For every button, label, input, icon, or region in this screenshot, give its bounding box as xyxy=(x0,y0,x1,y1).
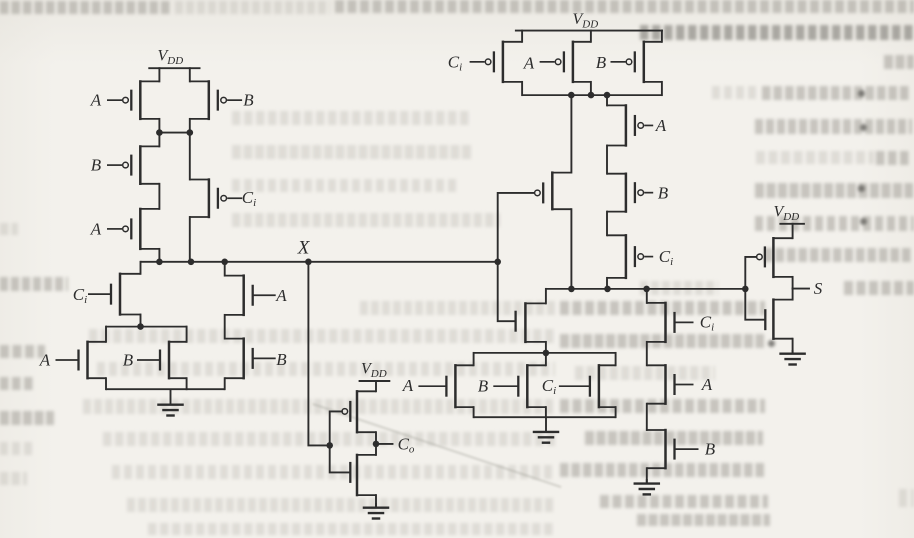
wire Q26 source to ground xyxy=(646,468,648,483)
ground (Co inverter) xyxy=(363,503,390,519)
wire sum-bar to Q27 gate xyxy=(745,257,756,289)
node X rail xyxy=(141,261,498,263)
wire node down to Q8 drain xyxy=(186,327,188,342)
junction Q6 source / parallel pair xyxy=(137,323,144,330)
junction parallel trio / Q20 xyxy=(543,350,550,357)
pmos Q15 gate B (top parallel trio) xyxy=(611,41,662,84)
svg-text:Ci: Ci xyxy=(448,53,462,74)
wire Q25 to Q26 xyxy=(646,404,648,430)
nmos Q20 (gate X) xyxy=(516,302,546,343)
svg-text:B: B xyxy=(596,53,607,72)
pmos Q16 gate A (series chain) xyxy=(607,104,653,147)
power rail VDD (S inverter) xyxy=(779,223,805,225)
sum-bar node rail xyxy=(546,288,745,290)
parallel trio top wire xyxy=(474,352,616,354)
svg-text:Ci: Ci xyxy=(242,188,256,209)
svg-text:A: A xyxy=(90,91,102,110)
wire Q7 source to gnd rail xyxy=(105,378,107,389)
svg-text:A: A xyxy=(701,375,713,394)
nmos Q28 (S inverter) xyxy=(765,298,792,340)
wire down to Q3 xyxy=(158,133,160,147)
wire Q18 drain to sum-bar rail xyxy=(606,278,608,289)
wire Q21 drain up xyxy=(473,353,475,365)
nmos Q26 gate B (nmos series chain) xyxy=(647,429,699,470)
junction pair-drain right xyxy=(187,129,194,136)
svg-text:A: A xyxy=(523,54,535,73)
junction trio rail / series chain xyxy=(604,92,611,99)
wire Q14 source to VDD xyxy=(590,31,592,42)
wire Q20 source down to parallel node xyxy=(545,342,547,353)
ground (left block) xyxy=(157,389,184,415)
pmos Q1 gate A (top-left parallel pair) xyxy=(107,80,159,120)
svg-text:S: S xyxy=(814,279,823,298)
svg-text:Co: Co xyxy=(398,435,415,456)
junction Co output xyxy=(373,441,380,448)
wire Q16 to Q17 xyxy=(606,146,608,174)
wire Q23 source down xyxy=(615,407,617,417)
wire Q11 drain to Co node xyxy=(375,432,377,444)
wire Q11 source to VDD xyxy=(375,381,377,391)
svg-text:Ci: Ci xyxy=(659,247,673,268)
svg-text:A: A xyxy=(90,220,102,239)
junction X rail / Q5 drain xyxy=(188,259,195,266)
power rail VDD (Co inverter) xyxy=(359,380,391,382)
wire Q22 drain up xyxy=(545,353,547,365)
nmos Q7 gate A (parallel) xyxy=(56,341,107,380)
nmos Q6 gate Ci (pull-down top) xyxy=(88,273,141,316)
power rail VDD (left block) xyxy=(148,67,200,69)
svg-text:B: B xyxy=(243,91,254,110)
pmos Q13 gate Ci (top parallel trio) xyxy=(470,41,522,84)
wire Q8 source to gnd rail xyxy=(186,378,188,389)
junction sum-bar / Q18 drain xyxy=(604,286,611,293)
nmos Q23 gate Ci (bottom parallel trio) xyxy=(559,364,616,408)
pmos Q18 gate Ci (series chain) xyxy=(607,234,653,279)
wire Q10 source to gnd rail xyxy=(224,378,226,389)
wire sum-bar down to Q24 xyxy=(646,289,648,303)
nmos Q10 gate B (series) xyxy=(225,337,276,379)
junction trio rail / long wire xyxy=(568,92,575,99)
pmos Q19 (gate X) xyxy=(543,171,571,210)
junction X rail / N-branch xyxy=(221,259,228,266)
svg-text:VDD: VDD xyxy=(361,360,387,380)
pmos Q27 (S inverter) xyxy=(765,237,793,278)
wire Q1 source to VDD rail xyxy=(158,68,160,81)
wire Q3 to Q4 xyxy=(158,184,160,209)
junction sum-bar / nmos chain xyxy=(643,286,650,293)
pmos Q14 gate A (top parallel trio) xyxy=(540,41,591,84)
nmos Q24 gate Ci (nmos series chain) xyxy=(647,302,694,343)
wire Q19 drain to sum-bar rail xyxy=(570,209,572,289)
wire S output lead xyxy=(793,288,809,290)
ground (S inverter) xyxy=(779,350,806,365)
wire S node to Q28 drain xyxy=(792,289,794,300)
pmos Q27 gate bubble (S inverter) xyxy=(757,254,763,260)
wire X to inverter input xyxy=(308,262,329,446)
pmos Q11 (Co inverter) gate bubble xyxy=(342,409,348,415)
junction X rail / Q4 drain xyxy=(156,259,163,266)
wire Q13 drain to trio rail xyxy=(521,82,523,95)
wire X down to Q20 gate xyxy=(498,262,515,321)
junction sum-bar / S inverter input xyxy=(742,286,749,293)
svg-text:B: B xyxy=(91,156,102,175)
wire Q24 to Q25 xyxy=(646,342,648,365)
svg-text:X: X xyxy=(297,238,311,259)
pmos Q19 gate bubble (gate = X) xyxy=(535,190,541,196)
svg-text:VDD: VDD xyxy=(774,204,800,224)
wire Q5 drain to X rail xyxy=(189,217,191,262)
svg-text:B: B xyxy=(658,183,669,202)
pmos Q11 (Co inverter) xyxy=(350,390,376,433)
svg-text:A: A xyxy=(655,116,667,135)
wire Q9 to Q10 xyxy=(224,315,226,339)
junction inverter input xyxy=(326,442,333,449)
junction trio rail / Q14 drain xyxy=(588,92,595,99)
wire Q22 source down xyxy=(545,407,547,417)
wire input to Q11 gate xyxy=(330,411,342,445)
wire Q14 drain to trio rail xyxy=(590,82,592,95)
wire Q4 drain to X rail xyxy=(158,249,160,262)
svg-text:B: B xyxy=(123,350,134,369)
wire Co output lead xyxy=(376,443,393,445)
junction X rail / inverter feed xyxy=(305,259,312,266)
parallel trio bottom wire xyxy=(474,416,616,418)
wire X rail down to Q9 xyxy=(224,262,226,276)
trio drain rail xyxy=(522,94,662,96)
wire Q27 source to VDD xyxy=(792,224,794,238)
wire Q12 drain to Co node xyxy=(375,444,377,455)
ground rail (left block) xyxy=(106,388,225,390)
wire Q15 source to VDD xyxy=(661,31,663,42)
wire Q2 drain down to node xyxy=(189,119,191,133)
svg-text:A: A xyxy=(275,286,287,305)
svg-text:Ci: Ci xyxy=(700,313,714,334)
wire trio rail down to Q16 xyxy=(606,95,608,105)
svg-text:B: B xyxy=(705,440,716,459)
wire sum-bar to Q28 gate xyxy=(745,289,764,320)
pmos Q5 gate Ci (parallel branch) xyxy=(190,178,242,218)
wire Q6 source to parallel node xyxy=(140,315,142,327)
wire X up to Q19 gate xyxy=(498,193,534,262)
svg-text:VDD: VDD xyxy=(573,11,599,31)
pmos Q4 gate A (series) xyxy=(107,208,159,250)
wire Q12 source to ground xyxy=(375,495,377,507)
nmos Q21 gate A (bottom parallel trio) xyxy=(418,364,473,408)
wire Q2 source to VDD rail xyxy=(189,68,191,81)
power rail VDD (sum block) xyxy=(515,30,663,32)
pmos Q2 gate B (top-left parallel pair) xyxy=(190,80,242,120)
wire input to Q12 gate xyxy=(330,445,350,472)
wire Q23 drain up xyxy=(615,353,617,365)
pmos Q3 gate B (series) xyxy=(107,145,159,185)
svg-text:Ci: Ci xyxy=(73,285,87,306)
svg-text:VDD: VDD xyxy=(158,48,184,68)
wire Q1 drain down to node xyxy=(158,119,160,133)
wire joining parallel pair drains xyxy=(159,132,189,134)
svg-text:A: A xyxy=(39,350,51,369)
nmos Q8 gate B (parallel) xyxy=(137,341,187,380)
junction X rail right end xyxy=(494,259,501,266)
svg-text:B: B xyxy=(276,350,287,369)
wire Q21 source down xyxy=(473,407,475,417)
wire long: trio rail to Q19 source xyxy=(570,95,572,173)
nmos Q12 (Co inverter) xyxy=(350,454,376,497)
ground (bottom parallel trio) xyxy=(533,417,560,443)
nmos Q22 gate B (bottom parallel trio) xyxy=(493,364,546,408)
nmos Q25 gate A (nmos series chain) xyxy=(647,364,694,405)
wire Q28 source to ground xyxy=(792,339,794,353)
wire Q13 source to VDD xyxy=(521,31,523,42)
svg-text:Ci: Ci xyxy=(542,376,556,397)
wire down to Q5 xyxy=(189,133,191,180)
internal node wire (parallel A|B top) xyxy=(106,326,187,328)
wire X rail left end down to Q6 xyxy=(140,262,142,274)
wire Q27 drain to S node xyxy=(792,277,794,289)
wire Q15 drain to trio rail xyxy=(661,82,663,95)
pmos Q17 gate B (series chain) xyxy=(607,173,653,213)
ground (nmos series chain) xyxy=(634,479,661,494)
wire Q17 to Q18 xyxy=(606,212,608,236)
wire node down to Q7 drain xyxy=(105,327,107,342)
junction sum-bar / Q19 drain xyxy=(568,286,575,293)
junction pair-drain left xyxy=(156,129,163,136)
svg-text:B: B xyxy=(478,377,489,396)
svg-text:A: A xyxy=(402,376,414,395)
nmos Q9 gate A (series) xyxy=(225,274,276,316)
wire sum-bar left end down to Q20 xyxy=(545,289,547,304)
